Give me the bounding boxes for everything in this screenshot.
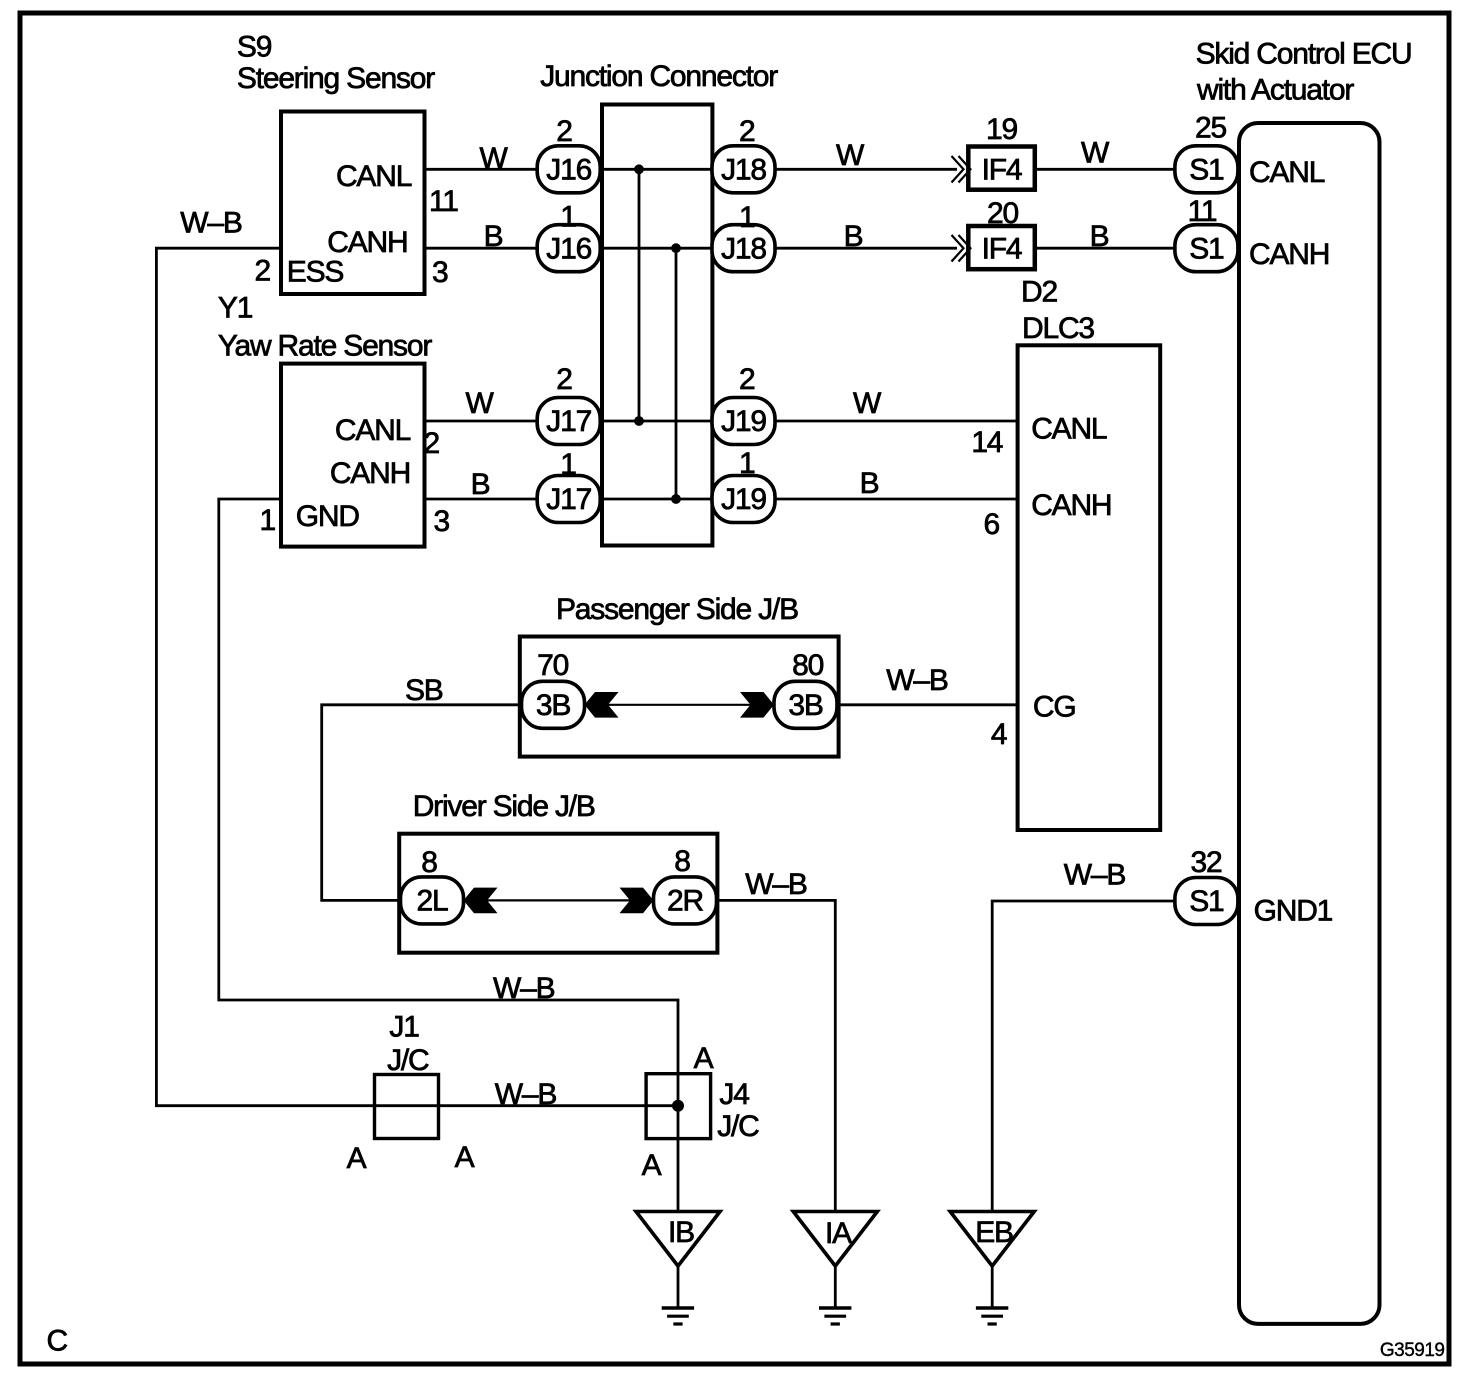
svg-text:S1: S1 [1189,885,1224,918]
wire B IF4 to S1 pin11 [1035,247,1176,250]
svg-text:Junction Connector: Junction Connector [540,60,778,93]
svg-text:25: 25 [1195,112,1226,145]
svg-text:2L: 2L [417,885,448,918]
ground symbol IA [819,1306,851,1310]
svg-text:32: 32 [1191,846,1222,879]
connector oval 3B pin80 [774,681,837,728]
node dot J16/J17 B tie [671,243,681,253]
svg-text:1: 1 [560,201,576,234]
connector oval J17 pin1 [537,476,600,523]
svg-text:IF4: IF4 [982,154,1022,187]
svg-text:70: 70 [537,649,568,682]
svg-text:3: 3 [434,505,450,538]
junction connector J4 box [646,1074,711,1139]
passenger side J/B box [520,637,839,757]
arrow chevrons into IF4 pin19 [952,156,971,183]
svg-text:ESS: ESS [287,256,344,289]
wire W IF4 to S1 pin25 [1035,168,1176,171]
svg-text:J16: J16 [546,232,591,265]
connector oval 2R pin8 [654,877,717,924]
svg-text:J1: J1 [389,1011,419,1044]
svg-text:J/C: J/C [717,1110,759,1143]
svg-text:J16: J16 [546,154,591,187]
svg-text:3B: 3B [536,689,570,722]
svg-text:D2: D2 [1021,276,1057,309]
svg-text:IF4: IF4 [982,232,1022,265]
yaw rate sensor Y1 box [281,364,425,547]
arrow filled left into 3B pin70 [585,692,619,718]
connector oval J19 pin2 [712,398,775,445]
connector oval S1 pin32 [1175,878,1238,925]
junction connector J1 box [375,1075,439,1139]
svg-text:B: B [484,220,503,253]
svg-text:B: B [860,467,879,500]
svg-text:CANL: CANL [336,160,412,193]
wire W J18 to IF4 pin19 [775,168,957,171]
svg-text:EB: EB [975,1216,1013,1249]
svg-text:Passenger Side J/B: Passenger Side J/B [556,593,798,626]
svg-text:Driver Side J/B: Driver Side J/B [413,790,595,823]
wire W steering CANL to J16 pin2 [424,168,538,171]
wire W J17 to J19 inside junction connector [600,420,713,423]
wire passenger J/B internal [585,704,775,706]
svg-text:IB: IB [668,1216,694,1249]
svg-text:A: A [347,1142,367,1175]
svg-text:S1: S1 [1189,232,1224,265]
wire W J16 to J18 inside junction connector [600,168,713,171]
wire B yaw CANH to J17 pin1 [424,498,538,501]
svg-text:IA: IA [825,1217,852,1250]
svg-text:J19: J19 [721,483,766,516]
svg-text:B: B [1090,220,1109,253]
connector oval J18 pin1 [712,225,775,272]
svg-text:3: 3 [432,256,448,289]
svg-text:C: C [47,1325,68,1358]
svg-text:J17: J17 [546,405,591,438]
svg-text:19: 19 [986,113,1017,146]
svg-text:Y1: Y1 [218,292,253,325]
svg-text:J19: J19 [721,405,766,438]
svg-text:6: 6 [984,508,1000,541]
svg-text:G35919: G35919 [1380,1340,1445,1361]
svg-text:W: W [465,387,494,420]
svg-text:20: 20 [987,197,1018,230]
svg-text:4: 4 [991,718,1007,751]
connector IF4 pin20 box [968,226,1035,269]
svg-text:SB: SB [405,674,443,707]
wire B J19 to DLC3 CANH pin6 [775,498,1018,501]
svg-text:GND: GND [296,500,360,533]
svg-text:CANH: CANH [1031,489,1111,522]
ground symbol EB [976,1306,1008,1310]
wire B J16 to J18 inside junction connector [600,247,713,250]
svg-text:Skid Control ECU: Skid Control ECU [1196,38,1412,71]
svg-text:W: W [853,387,882,420]
svg-text:2R: 2R [667,885,703,918]
arrow filled right into 2R [620,888,654,914]
svg-text:W–B: W–B [495,1078,557,1111]
wire SB 3B pin70 to 2L [322,705,522,901]
svg-text:8: 8 [674,845,690,878]
ground triangle EB [950,1212,1034,1267]
connector oval J16 pin1 [537,225,600,272]
svg-text:1: 1 [739,447,755,480]
svg-text:80: 80 [792,649,823,682]
connector oval J16 pin2 [537,146,600,193]
svg-text:CANH: CANH [330,457,410,490]
svg-text:CANH: CANH [327,226,407,259]
svg-text:CANL: CANL [1031,413,1107,446]
connector oval S1 pin11 [1175,225,1238,272]
svg-text:CG: CG [1033,691,1076,724]
DLC3 D2 box [1018,345,1161,830]
svg-text:2: 2 [556,115,572,148]
svg-text:W–B: W–B [886,664,948,697]
svg-text:J18: J18 [721,232,766,265]
svg-text:3B: 3B [788,689,822,722]
node dot J4 junction [672,1100,684,1112]
svg-text:Yaw Rate Sensor: Yaw Rate Sensor [218,330,432,363]
svg-text:A: A [455,1141,475,1174]
svg-text:CANH: CANH [1249,238,1329,271]
svg-text:W–B: W–B [180,207,242,240]
svg-text:GND1: GND1 [1254,895,1333,928]
svg-text:11: 11 [1188,195,1217,228]
wire W-B 2R to IA ground [717,900,836,1211]
svg-text:14: 14 [971,426,1002,459]
connector oval J18 pin2 [712,146,775,193]
svg-text:W–B: W–B [493,972,555,1005]
connector oval 2L pin8 [401,877,464,924]
wire driver J/B internal [464,899,654,901]
ground triangle IA [793,1212,877,1267]
wire junction connector internal vertical W [638,169,641,421]
svg-text:8: 8 [421,846,437,879]
connector oval 3B pin70 [522,681,585,728]
node dot J16/J17 W tie [634,164,644,174]
svg-text:2: 2 [556,363,572,396]
svg-text:with Actuator: with Actuator [1196,74,1354,107]
svg-text:DLC3: DLC3 [1022,312,1094,345]
wire W J19 to DLC3 CANL pin14 [775,420,1018,423]
ground triangle IB [636,1212,720,1267]
svg-text:2: 2 [739,115,755,148]
arrow filled right into 3B pin80 [740,692,774,718]
junction connector box [602,105,712,546]
svg-text:B: B [844,220,863,253]
svg-text:CANL: CANL [335,414,411,447]
svg-text:1: 1 [739,201,755,234]
connector oval S1 pin25 [1175,146,1238,193]
wire W-B 3B pin80 to DLC3 CG pin4 [837,703,1018,706]
svg-text:J17: J17 [546,483,591,516]
wire IA triangle to earth [834,1266,837,1308]
driver side J/B box [399,834,717,953]
wire B J17 to J19 inside junction connector [600,498,713,501]
connector oval J19 pin1 [712,476,775,523]
svg-text:W: W [1081,137,1110,170]
svg-text:W–B: W–B [1064,859,1126,892]
svg-text:S9: S9 [237,31,272,64]
svg-text:A: A [642,1149,662,1182]
svg-text:2: 2 [424,427,440,460]
svg-text:J/C: J/C [387,1044,429,1077]
wire junction connector internal vertical B [675,248,678,499]
wire W-B S1 pin32 GND1 to EB ground [992,901,1175,1211]
wire W-B yaw GND pin1 down to J4 and IB ground [219,499,678,1211]
wire EB triangle to earth [991,1266,994,1308]
svg-text:S1: S1 [1189,154,1224,187]
svg-text:Steering Sensor: Steering Sensor [237,62,435,95]
wire IB triangle to earth [677,1266,680,1308]
wire B J18 to IF4 pin20 [775,247,957,250]
ground symbol IB [662,1306,694,1310]
node dot J17 B tie [671,494,681,504]
svg-text:B: B [471,468,490,501]
node dot J17 W tie [634,416,644,426]
svg-text:A: A [694,1042,714,1075]
arrow filled left into 2L [464,888,498,914]
svg-text:J18: J18 [721,154,766,187]
wire W-B steering ESS pin2 down-left to J1 [156,248,678,1105]
wire B steering CANH to J16 pin1 [424,247,538,250]
svg-text:W–B: W–B [745,868,807,901]
svg-text:J4: J4 [719,1078,749,1111]
svg-text:11: 11 [429,185,458,218]
skid control ECU with actuator box [1239,123,1380,1324]
svg-text:1: 1 [260,504,276,537]
arrow chevrons into IF4 pin20 [952,235,971,262]
svg-text:CANL: CANL [1249,156,1325,189]
connector IF4 pin19 box [968,147,1035,190]
steering sensor S9 box [281,112,425,295]
svg-text:2: 2 [255,255,271,288]
connector oval J17 pin2 [537,398,600,445]
svg-text:W: W [479,142,508,175]
wire W yaw CANL to J17 pin2 [424,420,538,423]
svg-text:W: W [836,139,865,172]
svg-text:2: 2 [739,363,755,396]
svg-text:1: 1 [560,448,576,481]
